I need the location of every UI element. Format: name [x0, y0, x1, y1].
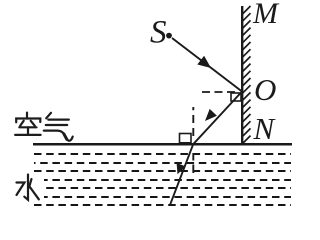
svg-text:S: S	[150, 15, 167, 51]
svg-text:M: M	[252, 0, 280, 30]
svg-text:O: O	[254, 72, 276, 107]
svg-text:N: N	[253, 111, 277, 146]
